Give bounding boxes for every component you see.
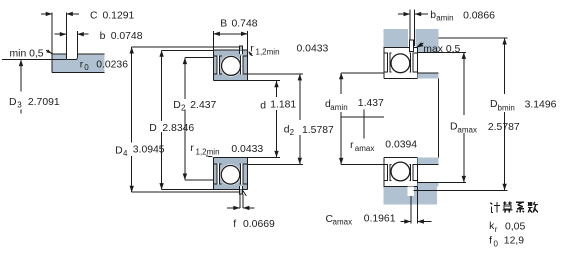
svg-text:0.0236: 0.0236	[96, 60, 128, 71]
svg-text:2.8346: 2.8346	[162, 123, 194, 134]
svg-text:3: 3	[17, 101, 22, 110]
svg-text:D: D	[173, 100, 181, 111]
svg-text:1.437: 1.437	[358, 98, 384, 109]
svg-text:0.1961: 0.1961	[364, 213, 396, 224]
svg-text:4: 4	[123, 149, 128, 158]
svg-text:0: 0	[494, 239, 499, 248]
svg-text:D: D	[490, 99, 498, 110]
svg-text:amax: amax	[355, 144, 375, 153]
svg-text:amin: amin	[330, 103, 347, 112]
svg-text:f: f	[489, 236, 492, 247]
svg-text:B: B	[220, 19, 227, 30]
svg-text:12,9: 12,9	[504, 236, 524, 247]
svg-text:0,05: 0,05	[505, 222, 525, 233]
svg-text:3.0945: 3.0945	[133, 145, 165, 156]
svg-text:d: d	[260, 100, 266, 111]
svg-text:1,2min: 1,2min	[196, 148, 220, 157]
svg-text:max 0,5: max 0,5	[423, 44, 460, 55]
svg-text:b: b	[100, 31, 106, 42]
svg-text:D: D	[149, 123, 157, 134]
svg-text:0.0394: 0.0394	[385, 140, 417, 151]
svg-text:0: 0	[84, 63, 89, 72]
svg-text:0.0748: 0.0748	[111, 31, 143, 42]
svg-text:0.748: 0.748	[232, 19, 258, 30]
svg-text:0.0866: 0.0866	[463, 11, 495, 22]
svg-text:1.5787: 1.5787	[302, 125, 334, 136]
svg-text:0.0433: 0.0433	[297, 44, 329, 55]
svg-text:0.0669: 0.0669	[243, 219, 275, 230]
svg-text:0.0433: 0.0433	[231, 144, 263, 155]
svg-text:r: r	[80, 60, 84, 71]
svg-text:bmin: bmin	[498, 103, 515, 112]
svg-text:r: r	[190, 143, 194, 154]
svg-text:2: 2	[181, 104, 186, 113]
svg-text:2: 2	[290, 128, 295, 137]
svg-text:amax: amax	[457, 125, 477, 134]
svg-text:2.5787: 2.5787	[488, 122, 520, 133]
svg-text:min 0,5: min 0,5	[10, 48, 44, 59]
svg-text:D: D	[9, 97, 17, 108]
svg-text:D: D	[450, 122, 458, 133]
svg-text:3.1496: 3.1496	[525, 100, 557, 111]
svg-text:amax: amax	[333, 218, 353, 227]
svg-text:D: D	[115, 146, 123, 157]
svg-text:1,2min: 1,2min	[256, 48, 280, 57]
svg-text:C: C	[90, 10, 98, 21]
svg-text:r: r	[350, 140, 354, 151]
svg-text:f: f	[233, 219, 236, 230]
svg-text:2.437: 2.437	[190, 100, 216, 111]
svg-text:2.7091: 2.7091	[28, 97, 60, 108]
svg-text:0.1291: 0.1291	[103, 10, 135, 21]
svg-text:r: r	[495, 225, 498, 234]
svg-text:1.181: 1.181	[270, 100, 296, 111]
svg-text:amin: amin	[436, 14, 453, 23]
